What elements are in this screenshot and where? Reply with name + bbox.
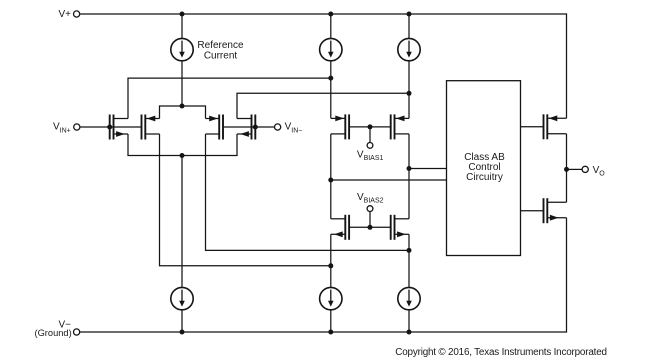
transistor Q9 (cascode NMOS left): [348, 215, 350, 240]
node V- / tail branch: [180, 330, 185, 335]
node M3 drain / right branch: [407, 248, 412, 253]
wire output to VO terminal: [567, 168, 583, 170]
wire VBIAS1 stub: [369, 127, 371, 142]
svg-text:V+: V+: [58, 9, 71, 20]
svg-text:VO: VO: [593, 165, 606, 178]
node VBIAS1: [368, 124, 373, 129]
svg-text:Copyright © 2016, Texas Instru: Copyright © 2016, Texas Instruments Inco…: [395, 347, 607, 358]
svg-text:VBIAS1: VBIAS1: [357, 149, 384, 162]
wire left branch Q9 source to I5: [330, 234, 332, 287]
transistor Q7 (output PMOS): [543, 114, 545, 139]
wire I3 to cascode Q6: [408, 61, 410, 119]
wire I2 to cascode Q5: [330, 61, 332, 119]
wire VBIAS2 gate line: [349, 226, 391, 228]
VBIAS1 terminal: [367, 143, 373, 149]
svg-text:VIN−: VIN−: [285, 122, 303, 135]
transistor Q8 (output NMOS): [543, 198, 545, 223]
Class AB Control Circuitry box: [447, 81, 521, 256]
VO terminal: [582, 166, 588, 172]
transistor M3 (input PMOS right): [222, 115, 224, 140]
node left cascode output: [328, 178, 333, 183]
transistor Q6 (cascode PMOS right): [390, 114, 392, 139]
wire left branch Q5 drain to Q9 drain: [330, 134, 332, 219]
wire M3 drain down: [206, 134, 410, 250]
VIN- terminal: [275, 124, 281, 130]
node VIN- / M4 gate: [253, 125, 258, 130]
wire right cascode output to Class AB box: [409, 168, 447, 170]
wire box to Q7 gate: [521, 126, 544, 128]
wire I2 top: [330, 14, 332, 38]
VIN+ terminal: [74, 124, 80, 130]
node V+ / ref branch: [180, 12, 185, 17]
wire NMOS pair tail: [128, 134, 237, 156]
current source I6: [398, 287, 420, 309]
wire right branch Q10 source to I6: [408, 234, 410, 287]
wire VBIAS2 stub: [369, 212, 371, 228]
current source I5: [320, 287, 342, 309]
svg-text:Current: Current: [204, 50, 238, 61]
wire VIN+ to gates of M1 M2: [80, 126, 142, 128]
wire VIN- to gates of M3 M4: [223, 126, 275, 128]
transistor M1 (input NMOS left): [109, 115, 111, 140]
wire M1 drain to left cascode branch: [128, 78, 331, 118]
wire VBIAS1 gate line: [349, 126, 391, 128]
svg-text:VBIAS2: VBIAS2: [357, 192, 384, 205]
wire tail to current source I4: [181, 156, 183, 288]
V- terminal: [74, 329, 80, 335]
node NMOS tail: [180, 153, 185, 158]
node VIN+ / M1 gate: [107, 125, 112, 130]
node output: [564, 167, 569, 172]
VBIAS2 terminal: [367, 206, 373, 212]
wire right branch Q6 drain to Q10 drain: [408, 134, 410, 219]
transistor M4 (input NMOS right): [254, 115, 256, 140]
wire PMOS pair tail: [160, 106, 206, 119]
node M4 drain / right branch: [407, 91, 412, 96]
transistor Q10 (cascode NMOS right): [390, 215, 392, 240]
node VBIAS2: [368, 225, 373, 230]
current source I1 (reference): [171, 38, 193, 60]
wire Q7 drain to Q8 drain: [566, 134, 568, 202]
node M1 drain / left branch: [328, 76, 333, 81]
wire I1 to PMOS tail: [181, 61, 183, 106]
node right cascode output: [407, 166, 412, 171]
wire I1 top: [181, 14, 183, 38]
svg-text:Circuitry: Circuitry: [466, 172, 503, 183]
node V- / right cascode branch: [407, 330, 412, 335]
current source I4: [171, 287, 193, 309]
svg-text:(Ground): (Ground): [34, 328, 71, 338]
V+ terminal: [74, 11, 80, 17]
current source I2: [320, 38, 342, 60]
wire M2 drain down: [160, 134, 331, 266]
node V+ / right cascode branch: [407, 12, 412, 17]
wire V- rail: [80, 218, 567, 332]
transistor M2 (input PMOS left): [141, 115, 143, 140]
wire I3 top: [408, 14, 410, 38]
node V+ / left cascode branch: [328, 12, 333, 17]
svg-text:VIN+: VIN+: [53, 122, 71, 135]
transistor Q5 (cascode PMOS left): [348, 114, 350, 139]
node V- / left cascode branch: [328, 330, 333, 335]
svg-text:Reference: Reference: [197, 40, 244, 51]
wire I5 bottom: [330, 310, 332, 332]
wire M4 drain to right cascode branch: [237, 93, 409, 118]
wire V+ rail: [80, 14, 567, 118]
current source I3: [398, 38, 420, 60]
wire I4 bottom: [181, 310, 183, 332]
wire left cascode output to Class AB box: [331, 179, 447, 181]
node M2 drain / left branch: [328, 263, 333, 268]
wire I6 bottom: [408, 310, 410, 332]
node PMOS tail / reference current: [180, 104, 185, 109]
wire box to Q8 gate: [521, 210, 544, 212]
